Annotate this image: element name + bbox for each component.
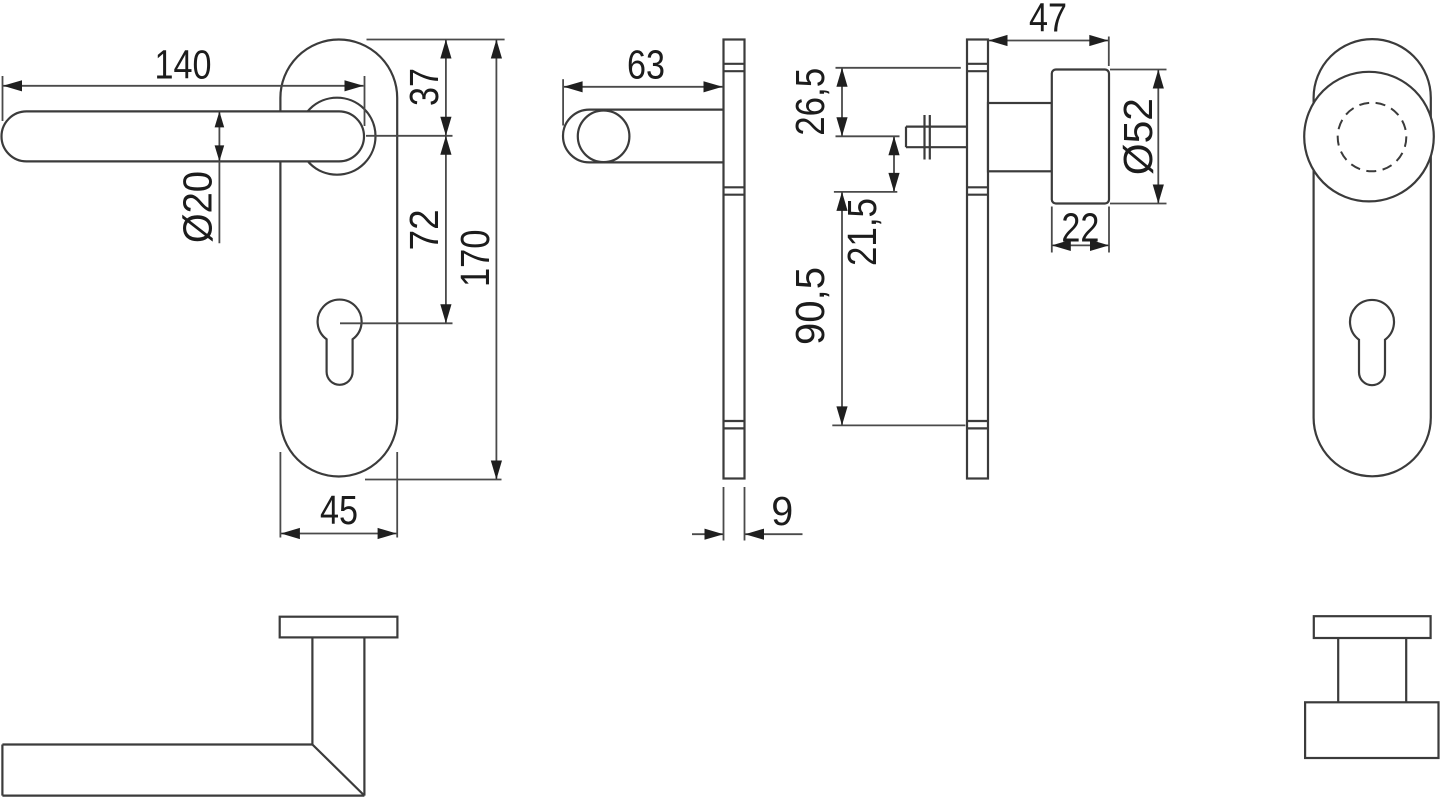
- svg-text:37: 37: [401, 68, 447, 106]
- dimension 170 line with arrows: [491, 40, 502, 480]
- dimension label Ø52: [1115, 98, 1161, 175]
- knob neck, fig3: [988, 103, 1052, 171]
- knob head, fig3: [1052, 70, 1109, 204]
- euro profile keyhole, fig1: [318, 300, 362, 385]
- dimension label 45: [320, 487, 358, 533]
- svg-text:63: 63: [627, 42, 665, 88]
- dimension label Ø20: [174, 171, 220, 243]
- dimension label 90,5: [787, 267, 833, 345]
- spindle collar lines, fig3: [925, 115, 930, 160]
- backplate side view, fig2: [724, 40, 745, 479]
- dimension label 21,5: [839, 198, 885, 266]
- backplate (short plate) front view, fig1: [280, 40, 397, 477]
- extension line bottom reference, fig3: [832, 424, 965, 426]
- extension line right for dim 140: [364, 76, 366, 126]
- extension lines for dim 22: [1052, 207, 1109, 253]
- grip bend diagonal, profile: [312, 745, 364, 796]
- dimension label 47: [1029, 0, 1067, 41]
- extension line top reference, fig3: [836, 67, 961, 69]
- extension line right for dim 45: [396, 452, 398, 538]
- spindle shaft, fig3: [906, 127, 966, 148]
- extension line right for dim 47: [1108, 37, 1110, 67]
- svg-text:47: 47: [1029, 0, 1067, 41]
- grip left end, profile: [1, 745, 3, 796]
- extension line left for dim 63: [562, 79, 564, 125]
- dimension label 170: [452, 230, 498, 288]
- screw hole tick marks on plate, fig3: [967, 64, 988, 429]
- svg-text:9: 9: [771, 488, 793, 534]
- dimension 26,5 line with arrows: [836, 68, 847, 137]
- dimension 90,5 line with arrows: [836, 192, 847, 426]
- dimension 22 line with arrows: [1052, 240, 1109, 251]
- handle neck left edge, profile: [311, 637, 313, 744]
- svg-text:22: 22: [1061, 205, 1099, 251]
- svg-text:170: 170: [452, 230, 498, 288]
- rosette flange edge-on, knob profile: [1314, 616, 1431, 638]
- knob head block, knob profile: [1305, 702, 1438, 758]
- svg-text:45: 45: [320, 487, 358, 533]
- rosette flange edge-on, profile view: [280, 617, 398, 638]
- dimension label 140: [155, 42, 212, 88]
- backplate side view, fig3: [967, 40, 988, 479]
- screw hole tick marks on plate, fig2: [724, 64, 745, 429]
- dimension Ø52 line with arrows: [1153, 70, 1164, 204]
- dimension label 26,5: [787, 68, 833, 136]
- svg-text:140: 140: [155, 42, 212, 88]
- dimension label 22: [1061, 205, 1099, 251]
- dimension label 9: [771, 488, 793, 534]
- dimension 9 lines with outside arrows: [692, 529, 803, 540]
- dimension label 72: [401, 209, 447, 250]
- extension line plate bottom, fig1: [365, 479, 502, 481]
- dimension 37 line with arrows: [440, 40, 451, 136]
- svg-text:26,5: 26,5: [787, 68, 833, 136]
- svg-text:90,5: 90,5: [787, 267, 833, 345]
- lever handle bar, fig1: [2, 111, 365, 161]
- dimension 140 line with arrows: [3, 80, 364, 91]
- rosette circle behind lever, fig1: [299, 98, 376, 175]
- dimension 21,5 line with arrows: [888, 136, 899, 192]
- backplate front view, fig4: [1314, 39, 1431, 476]
- extension line spindle axis, fig3: [836, 135, 900, 137]
- extension line left for dim 45: [279, 452, 281, 538]
- knob neck right edge, knob profile: [1405, 638, 1407, 702]
- extension line mid reference, fig3: [834, 191, 897, 193]
- dimension 63 line with arrows: [564, 81, 723, 92]
- extension lines for dim Ø52: [1110, 70, 1167, 204]
- extension line keyhole center, fig1: [340, 322, 453, 324]
- dimension 47 line with arrows: [989, 35, 1109, 46]
- dimension label 37: [401, 68, 447, 106]
- extension line plate top, fig1: [367, 39, 505, 41]
- grip bottom edge, profile: [2, 794, 364, 796]
- euro profile keyhole, fig4: [1350, 300, 1394, 385]
- dimension label 63: [627, 42, 665, 88]
- lever handle side view bar, fig2: [563, 110, 723, 163]
- dimension 45 line with arrows: [281, 528, 397, 539]
- svg-text:Ø20: Ø20: [174, 171, 220, 243]
- svg-text:72: 72: [401, 209, 447, 250]
- handle neck right edge, profile: [363, 637, 365, 795]
- extension line left for dim 140: [2, 76, 4, 121]
- svg-text:Ø52: Ø52: [1115, 98, 1161, 175]
- extension line handle axis, fig1: [366, 135, 453, 137]
- hidden circle dashed, fig4: [1338, 103, 1407, 172]
- dimension 72 line with arrows: [440, 136, 451, 323]
- knob neck left edge, knob profile: [1337, 638, 1339, 702]
- dimension Ø20 arrows and leader: [215, 111, 225, 243]
- knob circle front view, fig4: [1304, 72, 1434, 202]
- grip end circle, fig2: [578, 111, 630, 163]
- grip top edge, profile: [2, 743, 312, 745]
- extension lines for dim 9: [724, 487, 745, 541]
